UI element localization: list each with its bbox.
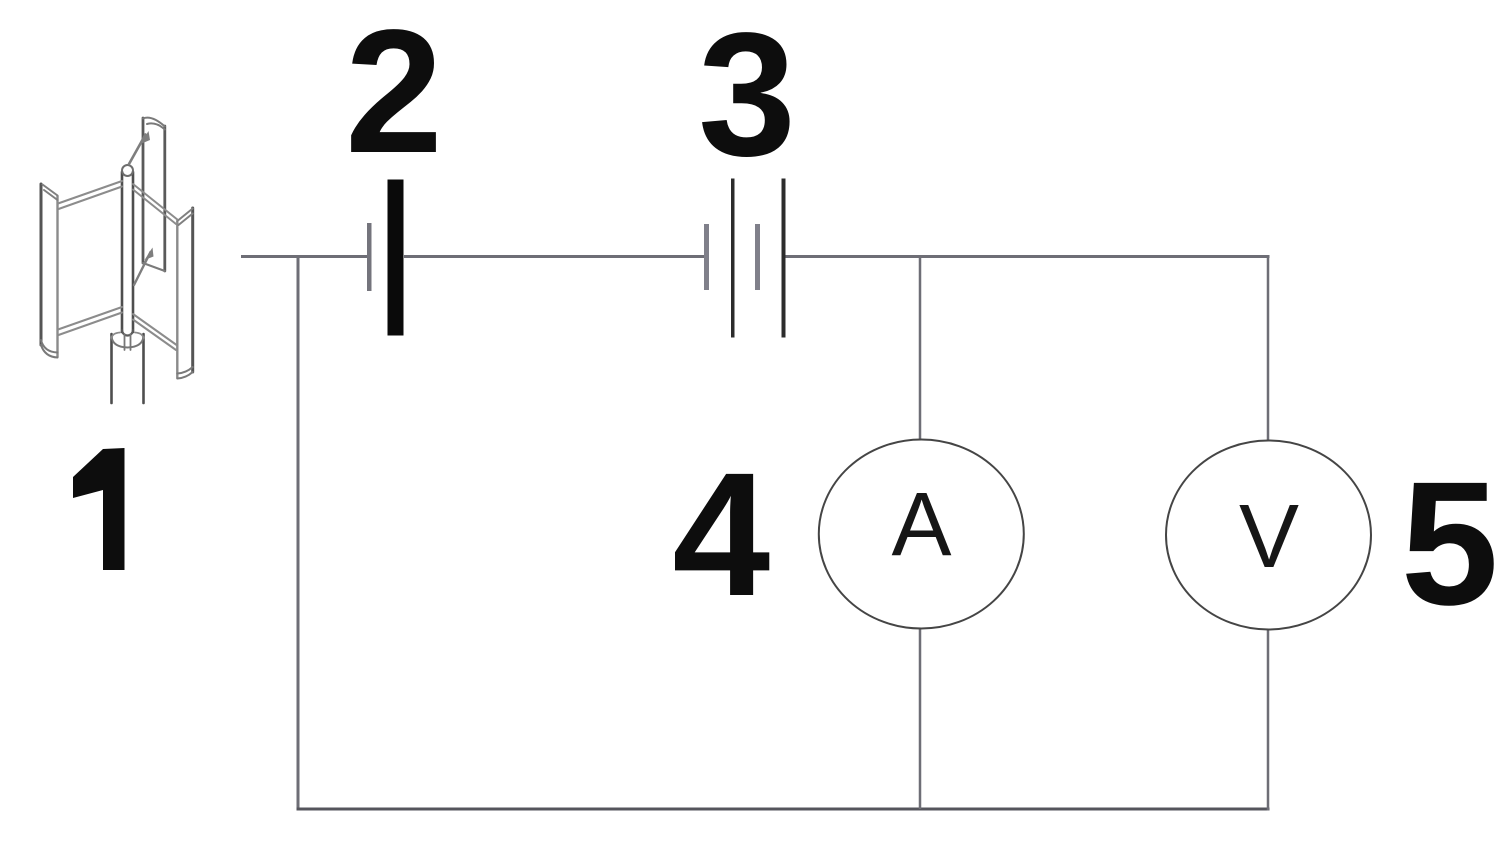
ammeter U4 circle <box>819 440 1024 629</box>
svg-text:4: 4 <box>672 437 770 633</box>
right blade outer edge <box>191 208 194 372</box>
wire: bottom horizontal <box>297 808 1270 811</box>
back upper strut arrowhead <box>141 131 151 144</box>
battery 3: long plate b <box>782 179 786 338</box>
turbine base rim back arc <box>112 333 144 339</box>
battery 3: long plate a <box>731 179 735 338</box>
back blade bottom edge <box>143 263 165 271</box>
svg-text:A: A <box>891 475 951 575</box>
battery cell 2: thick plate <box>388 180 404 336</box>
svg-text:V: V <box>1239 487 1299 587</box>
lower-right spoke line 1 <box>133 314 177 346</box>
lower-left spoke line 1 <box>58 307 122 330</box>
wire: voltmeter drop upper <box>1267 257 1270 443</box>
right blade top edge band <box>177 209 192 226</box>
upper-right spoke line 1 <box>133 184 177 220</box>
right blade inner edge <box>176 221 178 378</box>
back lower strut <box>134 252 151 285</box>
turbine base left edge <box>110 334 113 403</box>
wire: voltmeter drop lower <box>1267 628 1270 811</box>
wind turbine (component 1) <box>41 118 193 403</box>
battery cell 2: thin plate <box>367 223 372 291</box>
upper-left spoke line 1 <box>58 181 122 204</box>
wire: ammeter branch lower <box>919 628 922 809</box>
back lower strut arrowhead <box>145 248 154 261</box>
turbine base rim front arc <box>112 337 144 348</box>
upper-left spoke line 2 <box>59 187 123 210</box>
back upper strut <box>129 135 146 165</box>
lower-left spoke line 2 <box>59 313 123 336</box>
lower-right spoke line 2 <box>133 320 176 351</box>
back blade right edge <box>163 126 166 271</box>
turbine mast bottom U <box>122 330 133 336</box>
turbine mast right edge <box>132 172 135 332</box>
right blade bottom edge band <box>177 367 192 379</box>
wire: battery 3 to top-right corner <box>784 255 1270 258</box>
wire: generator to battery (top left horizontal) <box>241 255 368 258</box>
wire: left vertical drop <box>297 257 300 811</box>
back blade top edge band <box>143 118 165 130</box>
turbine inner shaft right <box>130 334 132 350</box>
label 1 (wind generator) <box>73 448 125 570</box>
battery 3: short plate a <box>704 224 709 290</box>
left blade top edge band <box>43 185 58 201</box>
upper-right spoke line 2 <box>133 190 176 225</box>
turbine mast top cap <box>122 165 133 176</box>
battery 3: short plate b <box>755 224 760 290</box>
turbine inner shaft left <box>124 334 126 350</box>
turbine mast left edge <box>121 172 124 332</box>
wire: battery 2 to battery 3 <box>404 255 705 258</box>
left blade bottom edge band <box>41 340 58 358</box>
voltmeter U5 circle <box>1166 441 1371 630</box>
svg-text:5: 5 <box>1401 446 1499 642</box>
back blade left edge <box>142 118 145 263</box>
left blade inner edge <box>56 196 58 357</box>
left blade outer edge <box>40 184 43 345</box>
svg-text:3: 3 <box>698 0 796 193</box>
turbine base right edge <box>142 334 145 403</box>
wire: ammeter branch upper <box>919 257 922 442</box>
svg-text:2: 2 <box>345 0 443 190</box>
